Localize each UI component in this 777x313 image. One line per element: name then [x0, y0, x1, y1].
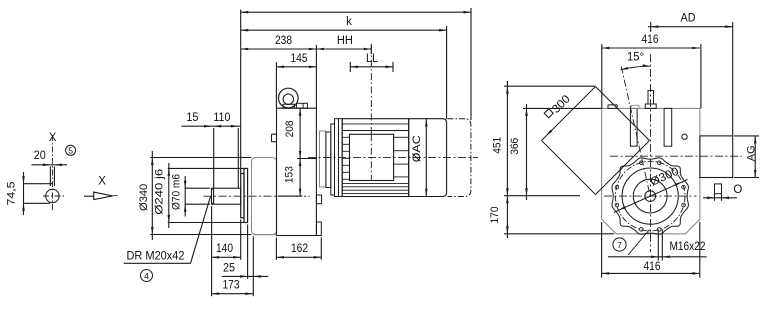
svg-text:153: 153	[283, 166, 295, 183]
svg-text:416: 416	[644, 261, 661, 273]
svg-text:366: 366	[509, 138, 521, 155]
svg-text:ØAC: ØAC	[411, 135, 423, 162]
svg-text:25: 25	[223, 263, 235, 275]
svg-text:145: 145	[291, 53, 308, 65]
svg-text:173: 173	[223, 280, 240, 292]
svg-text:162: 162	[291, 243, 308, 255]
svg-text:15: 15	[186, 112, 198, 124]
svg-text:Ø70 m6: Ø70 m6	[170, 174, 182, 210]
svg-text:AG: AG	[746, 145, 758, 161]
svg-text:Ø240 j6: Ø240 j6	[153, 169, 165, 215]
svg-text:Ø340: Ø340	[138, 184, 150, 211]
svg-text:238: 238	[275, 35, 292, 47]
svg-text:O: O	[733, 184, 742, 196]
svg-text:140: 140	[216, 243, 233, 255]
svg-text:451: 451	[491, 137, 503, 154]
svg-text:AD: AD	[681, 13, 696, 25]
svg-text:20: 20	[34, 150, 46, 162]
svg-text:15°: 15°	[627, 51, 644, 63]
svg-text:M16x22: M16x22	[670, 241, 706, 253]
svg-text:110: 110	[213, 112, 230, 124]
svg-text:k: k	[346, 16, 352, 28]
svg-text:X: X	[98, 176, 106, 188]
svg-text:LL: LL	[366, 53, 379, 65]
svg-text:416: 416	[642, 34, 659, 46]
svg-text:DR M20x42: DR M20x42	[127, 251, 185, 263]
svg-text:5: 5	[68, 146, 73, 156]
svg-text:170: 170	[489, 207, 501, 224]
svg-text:7: 7	[617, 240, 622, 250]
svg-text:HH: HH	[337, 35, 353, 47]
svg-text:208: 208	[284, 120, 296, 137]
svg-text:74,5: 74,5	[6, 182, 18, 206]
svg-text:4: 4	[144, 271, 149, 281]
